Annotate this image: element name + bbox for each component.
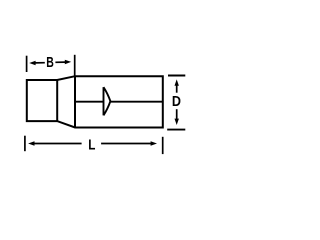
dimension L extension line left bbox=[24, 136, 26, 152]
dimension L extension line right bbox=[162, 137, 164, 154]
svg-text:L: L bbox=[88, 136, 95, 153]
body outline (reducer ferrule profile) bbox=[27, 76, 163, 127]
svg-text:B: B bbox=[46, 53, 54, 70]
dimension B extension line left bbox=[26, 56, 28, 72]
dimension B left arrow bbox=[29, 61, 35, 66]
body shoulder edge (small-cylinder right edge) bbox=[56, 80, 58, 121]
centerline left segment bbox=[75, 101, 104, 103]
internal cone symbol bbox=[104, 87, 111, 115]
dimension D up arrow bbox=[175, 79, 179, 85]
dimension D extension tick top bbox=[168, 75, 185, 77]
svg-text:D: D bbox=[172, 92, 181, 109]
centerline right segment bbox=[111, 101, 163, 103]
dimension L left arrow bbox=[28, 141, 34, 146]
dimension L right arrow bbox=[151, 141, 157, 146]
dimension B right arrow bbox=[65, 60, 71, 64]
dimension B extension line right bbox=[74, 55, 76, 76]
body large-bore left edge bbox=[74, 76, 76, 127]
dimension D down arrow bbox=[175, 119, 179, 125]
dimension D extension tick bottom bbox=[167, 129, 185, 131]
